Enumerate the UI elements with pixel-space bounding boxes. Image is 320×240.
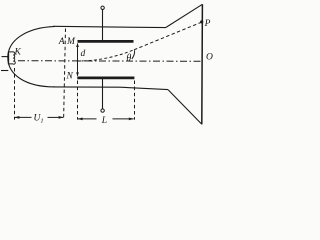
dashed vertical line at anode A <box>64 29 66 120</box>
svg-text:θ: θ <box>126 53 131 64</box>
deflection angle arc <box>132 50 135 59</box>
svg-text:U1: U1 <box>34 114 44 125</box>
d dimension double arrow <box>77 44 79 76</box>
tube envelope: cone bottom edge <box>168 90 202 125</box>
bottom plate lead <box>102 79 104 109</box>
svg-text:O: O <box>206 52 213 62</box>
svg-text:P: P <box>204 19 211 29</box>
cathode heater coil <box>9 52 16 64</box>
electron beam parabola inside plates (dashed) <box>78 50 134 61</box>
cathode K: plate bar <box>8 51 10 64</box>
tube envelope: cone top edge <box>166 4 202 27</box>
tube envelope: neck bottom <box>53 87 168 90</box>
electron beam straight path to screen (dashed) <box>134 22 202 50</box>
U1 dimension right arrowhead <box>59 116 64 119</box>
point P dot <box>200 20 203 23</box>
svg-text:N: N <box>66 72 74 82</box>
top terminal circle <box>101 6 104 9</box>
dashed vertical line through cathode (U1 left boundary) <box>14 68 16 120</box>
L dimension right arrowhead <box>129 118 134 121</box>
deflecting plate N (bottom) <box>77 77 134 80</box>
tube envelope: neck top <box>53 26 166 27</box>
svg-text:M: M <box>66 37 76 47</box>
svg-text:K: K <box>14 47 22 57</box>
top plate lead <box>102 9 104 40</box>
d dimension arrowhead up <box>76 43 79 47</box>
L dimension left segment <box>78 118 97 120</box>
d dimension arrowhead down <box>76 72 79 76</box>
tube envelope: left bulb cap <box>8 26 55 87</box>
axis dash-dot line <box>18 60 202 63</box>
cathode K: lead lower <box>1 70 8 72</box>
U1 dimension right segment <box>48 116 64 118</box>
svg-text:L: L <box>101 116 107 126</box>
svg-text:A: A <box>58 37 65 47</box>
U1 dimension left arrowhead <box>14 116 19 119</box>
L dimension left arrowhead <box>78 118 83 121</box>
L dimension right segment <box>113 118 134 120</box>
U1 dimension left segment <box>15 116 32 118</box>
dashed vertical line below plate right end (L right boundary) <box>134 81 136 120</box>
svg-text:d: d <box>81 49 86 59</box>
deflecting plate M (top) <box>78 40 134 43</box>
bottom terminal circle <box>101 109 104 112</box>
screen <box>201 4 204 124</box>
cathode K: lead upper <box>2 56 9 58</box>
dashed vertical line below plate left end (L left boundary) <box>77 81 79 120</box>
